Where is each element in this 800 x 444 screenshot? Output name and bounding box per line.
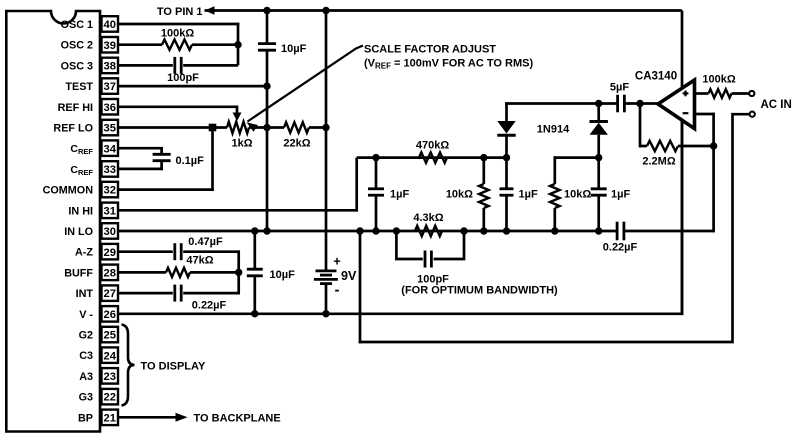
- svg-text:REF HI: REF HI: [58, 102, 93, 114]
- wire REF HI pin36 to pot wiper: [118, 106, 242, 122]
- svg-text:G2: G2: [79, 330, 93, 342]
- wire AC return: [359, 114, 749, 342]
- label SCALE FACTOR ADJUST: [364, 44, 496, 56]
- svg-text:24: 24: [104, 350, 117, 362]
- svg-text:BUFF: BUFF: [64, 267, 93, 279]
- svg-text:0.22µF: 0.22µF: [603, 242, 638, 254]
- capacitor 100pF bandwidth branch: [396, 231, 464, 268]
- terminal AC IN hi: [749, 91, 754, 96]
- label 10uF top: [281, 43, 307, 55]
- pin 28 BUFF box and label: [64, 265, 118, 281]
- svg-text:31: 31: [104, 205, 116, 217]
- junction node/10k1: [480, 154, 487, 161]
- svg-text:5µF: 5µF: [610, 82, 629, 94]
- pin 30 IN LO box and label: [64, 223, 118, 239]
- wire RMS node rail: [357, 156, 508, 159]
- svg-text:(FOR OPTIMUM BANDWIDTH): (FOR OPTIMUM BANDWIDTH): [401, 285, 558, 297]
- pin 22 G3 box and label: [79, 389, 118, 405]
- op-amp U2 CA3140: [658, 80, 695, 129]
- junction INLO/common vertical: [263, 227, 270, 234]
- svg-text:30: 30: [104, 226, 116, 238]
- pin 27 INT box and label: [76, 285, 118, 301]
- junction V+ / 22k-battery rail: [322, 7, 329, 14]
- pin 39 OSC 2 box and label: [61, 37, 118, 53]
- battery 9V: [314, 11, 338, 314]
- svg-text:+: +: [333, 254, 341, 269]
- label CA3140: [635, 71, 677, 83]
- svg-text:27: 27: [104, 288, 116, 300]
- junction common/reflo line: [263, 124, 270, 131]
- svg-text:1µF: 1µF: [611, 189, 630, 201]
- pin 34 CREF box and label: [70, 140, 118, 156]
- label TO BACKPLANE: [194, 413, 281, 425]
- svg-text:37: 37: [104, 81, 116, 93]
- capacitor 1uF 3: [591, 158, 607, 231]
- svg-text:10kΩ: 10kΩ: [446, 189, 473, 201]
- svg-text:35: 35: [104, 123, 116, 135]
- junction BUFF/47k node: [235, 269, 242, 276]
- svg-text:4.3kΩ: 4.3kΩ: [413, 212, 443, 224]
- capacitor 1uF 1: [368, 158, 384, 231]
- svg-text:INT: INT: [76, 288, 94, 300]
- junction diode2/10k2 node: [595, 154, 602, 161]
- wire IN LO to AC return drop: [359, 231, 362, 343]
- label 1uF 1: [390, 189, 409, 201]
- svg-text:AC IN: AC IN: [761, 99, 792, 111]
- label 470k: [416, 140, 449, 152]
- svg-text:1N914: 1N914: [537, 124, 570, 136]
- svg-text:COMMON: COMMON: [43, 185, 94, 197]
- wire COMMON pin32 riser to REF LO line: [118, 124, 216, 191]
- junction TEST/common: [263, 82, 270, 89]
- svg-text:REF LO: REF LO: [53, 123, 93, 135]
- junction INLO/10uF2: [251, 227, 258, 234]
- svg-text:OSC 3: OSC 3: [61, 60, 93, 72]
- label 100k OSC: [161, 28, 194, 40]
- svg-text:C3: C3: [79, 350, 93, 362]
- junction INLO/1uF1: [372, 227, 379, 234]
- resistor 4.3k: [415, 226, 442, 236]
- capacitor 5uF: [618, 95, 659, 113]
- svg-text:100kΩ: 100kΩ: [702, 74, 735, 86]
- label 1uF 3: [611, 189, 630, 201]
- label 0.1uF: [176, 155, 205, 167]
- diode D1 1N914 down: [497, 121, 515, 158]
- svg-text:V -: V -: [79, 309, 93, 321]
- svg-text:21: 21: [104, 412, 116, 424]
- svg-text:10µF: 10µF: [281, 43, 307, 55]
- wire rectifier top rail: [505, 102, 617, 121]
- pin 25 G2 box and label: [79, 327, 118, 343]
- junction 22k to V+ rail: [322, 124, 329, 131]
- svg-text:9V: 9V: [341, 269, 357, 283]
- label 1uF 2: [519, 189, 538, 201]
- svg-text:1kΩ: 1kΩ: [231, 138, 252, 150]
- pin 23 A3 box and label: [79, 368, 118, 384]
- resistor 47k BUFF: [118, 268, 239, 277]
- svg-text:0.1µF: 0.1µF: [176, 155, 205, 167]
- pin 33 CREF box and label: [70, 161, 118, 177]
- pin 29 A-Z box and label: [75, 244, 118, 260]
- label 47k: [186, 255, 213, 267]
- wire OSC1 pin40 to osc junction: [118, 23, 239, 66]
- label 100pF OSC: [167, 72, 199, 84]
- capacitor 0.22uF output: [617, 222, 624, 241]
- junction INLO/100pF rejoin: [460, 227, 467, 234]
- svg-text:CA3140: CA3140: [635, 71, 677, 83]
- wire V+ top rail with arrow to pin 1: [205, 6, 683, 89]
- junction INLO/10k1: [480, 227, 487, 234]
- svg-text:IN LO: IN LO: [64, 226, 93, 238]
- label battery plus: [333, 254, 341, 269]
- resistor 100k OSC: [118, 40, 238, 50]
- label for optimum bandwidth: [401, 285, 558, 297]
- svg-text:39: 39: [104, 40, 116, 52]
- label 100pF 2: [417, 274, 449, 286]
- wire 10k2 top link: [554, 156, 599, 157]
- svg-text:G3: G3: [79, 392, 93, 404]
- wire IN LO pin30 rail: [118, 145, 715, 233]
- svg-text:BP: BP: [78, 412, 93, 424]
- label AC IN: [761, 99, 792, 111]
- capacitor 100pF OSC: [118, 57, 238, 74]
- junction V-/10uF2: [251, 310, 258, 317]
- pin 31 IN HI box and label: [68, 203, 118, 219]
- svg-text:OSC 1: OSC 1: [61, 19, 93, 31]
- pin 40 OSC 1 box and label: [61, 16, 118, 32]
- svg-text:100kΩ: 100kΩ: [161, 28, 194, 40]
- label 2.2M: [642, 156, 675, 168]
- pin 37 TEST box and label: [65, 78, 118, 94]
- capacitor 10uF V+ to common vertical: [258, 11, 276, 232]
- label VREF note: [364, 58, 533, 71]
- wire IN HI pin31 riser to RMS node: [118, 158, 358, 212]
- label 22k: [283, 138, 310, 150]
- label 0.22uF INT: [192, 300, 227, 312]
- wire opamp V- supply drop: [681, 119, 684, 314]
- junction V+ / 10uF: [263, 7, 270, 14]
- label 4.3k: [413, 212, 443, 224]
- pin 38 OSC 3 box and label: [61, 58, 118, 73]
- pin 35 REF LO box and label: [53, 120, 118, 136]
- callout arrow scale factor adjust: [247, 46, 364, 132]
- svg-text:2.2MΩ: 2.2MΩ: [642, 156, 675, 168]
- brace to display: [122, 325, 135, 406]
- svg-text:100pF: 100pF: [167, 72, 199, 84]
- svg-text:1µF: 1µF: [519, 189, 538, 201]
- potentiometer 1k REF: [118, 122, 267, 134]
- svg-text:25: 25: [104, 330, 116, 342]
- capacitor 0.47uF A-Z: [118, 243, 240, 293]
- svg-text:TEST: TEST: [65, 81, 93, 93]
- label 0.47uF: [188, 236, 223, 248]
- svg-text:29: 29: [104, 247, 116, 259]
- junction INLO/1uF2: [503, 227, 510, 234]
- svg-text:22kΩ: 22kΩ: [283, 138, 310, 150]
- label 5uF: [610, 82, 629, 94]
- resistor 10k 1: [479, 158, 489, 231]
- svg-text:TO DISPLAY: TO DISPLAY: [141, 361, 206, 373]
- junction feedback/minus input: [710, 142, 717, 149]
- svg-text:0.47µF: 0.47µF: [188, 236, 223, 248]
- label 10k 1: [446, 189, 473, 201]
- svg-text:47kΩ: 47kΩ: [186, 255, 213, 267]
- label TO PIN 1: [157, 6, 203, 18]
- label 10k 2: [564, 189, 591, 201]
- resistor 22k: [267, 122, 326, 132]
- resistor 2.2M feedback: [640, 141, 714, 151]
- svg-text:A-Z: A-Z: [75, 247, 93, 259]
- capacitor 1uF 2: [500, 158, 514, 231]
- junction INLO/1uF3: [595, 227, 602, 234]
- pin 36 REF HI box and label: [58, 99, 118, 115]
- junction diode2 top: [595, 100, 602, 107]
- label 1k pot: [231, 138, 252, 150]
- IC U1 ICL7136 body outline: [6, 11, 100, 432]
- junction INLO/ac return drop: [356, 227, 363, 234]
- junction node/1uF1: [372, 154, 379, 161]
- svg-text:23: 23: [104, 371, 116, 383]
- svg-text:OSC 2: OSC 2: [61, 40, 93, 52]
- junction INLO/100pF branch: [393, 227, 400, 234]
- svg-text:0.22µF: 0.22µF: [192, 300, 227, 312]
- junction node/diode1: [503, 154, 510, 161]
- svg-text:470kΩ: 470kΩ: [416, 140, 449, 152]
- wire feedback node drop: [639, 104, 642, 148]
- wire TEST pin37: [118, 85, 267, 88]
- svg-text:32: 32: [104, 185, 116, 197]
- svg-text:28: 28: [104, 268, 116, 280]
- svg-text:1µF: 1µF: [390, 189, 409, 201]
- svg-text:22: 22: [104, 392, 116, 404]
- wire minus input: [694, 113, 715, 146]
- label 0.22uF output: [603, 242, 638, 254]
- svg-text:36: 36: [104, 102, 116, 114]
- svg-text:34: 34: [104, 143, 117, 155]
- junction OSC2 node: [234, 41, 241, 48]
- label 100k AC: [702, 74, 735, 86]
- svg-text:33: 33: [104, 164, 116, 176]
- svg-text:SCALE FACTOR ADJUST: SCALE FACTOR ADJUST: [364, 44, 496, 56]
- capacitor 0.22uF INT: [118, 285, 240, 302]
- svg-text:TO BACKPLANE: TO BACKPLANE: [194, 413, 281, 425]
- svg-text:38: 38: [104, 61, 116, 73]
- label battery 9V: [341, 269, 357, 283]
- diode D2 1N914 up: [590, 104, 608, 158]
- svg-text:IN HI: IN HI: [68, 205, 93, 217]
- capacitor 0.1uF CREF: [118, 147, 171, 170]
- wire BP to backplane arrow: [118, 413, 188, 422]
- wire V- rail pin26: [118, 119, 683, 316]
- pin 24 C3 box and label: [79, 347, 118, 363]
- capacitor 10uF integrator supply: [247, 231, 263, 314]
- label battery minus: [335, 282, 340, 299]
- svg-text:26: 26: [104, 309, 116, 321]
- pin 32 COMMON box and label: [43, 182, 118, 198]
- label 1N914: [537, 124, 570, 136]
- junction opamp output node: [636, 100, 643, 107]
- pin 26 V - box and label: [79, 306, 118, 322]
- resistor 100k AC input: [694, 89, 749, 98]
- svg-text:-: -: [335, 282, 340, 299]
- svg-text:TO PIN 1: TO PIN 1: [157, 6, 203, 18]
- svg-text:10µF: 10µF: [270, 269, 296, 281]
- label TO DISPLAY: [141, 361, 206, 373]
- terminal AC IN lo: [750, 112, 755, 117]
- svg-text:A3: A3: [79, 371, 93, 383]
- svg-text:10kΩ: 10kΩ: [564, 189, 591, 201]
- pin 21 BP box and label: [78, 410, 118, 426]
- junction INLO/10k2: [551, 227, 558, 234]
- resistor 10k 2: [550, 158, 560, 231]
- junction battery minus to V- rail: [322, 310, 329, 317]
- label 10uF 2: [270, 269, 296, 281]
- resistor 470k: [419, 152, 447, 162]
- svg-text:40: 40: [104, 19, 116, 31]
